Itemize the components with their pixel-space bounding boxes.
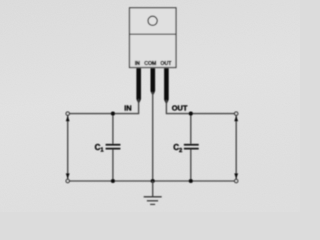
arrow down at input bottom (66, 173, 70, 179)
output terminal top (235, 112, 238, 115)
pin 3 leg (OUT) (164, 68, 169, 103)
input terminal bottom (66, 179, 69, 182)
input terminal top (66, 112, 69, 115)
wire: C2 branch upper (190, 114, 192, 144)
wire: OUT leg down to output rail (166, 100, 236, 114)
arrow up at input top (66, 116, 70, 122)
capacitor C1 plates (106, 144, 121, 150)
wire: C1 branch lower (112, 149, 114, 181)
pin 1 leg (IN) (136, 68, 141, 102)
svg-text:OUT: OUT (160, 61, 172, 67)
junction dot common bottom (151, 179, 155, 183)
mounting hole (148, 16, 157, 25)
arrow up at output top (234, 116, 238, 122)
wire: IN leg down to input rail (68, 99, 139, 114)
junction dot C2 top (189, 112, 193, 116)
svg-text:COM: COM (144, 61, 156, 67)
junction dot C1 top (111, 112, 115, 116)
junction dot C2 bottom (189, 179, 193, 183)
ground bar 2 (147, 200, 158, 202)
svg-text:IN: IN (135, 61, 140, 67)
wire: bottom common rail (68, 180, 237, 182)
ground bar 3 (150, 203, 155, 205)
regulator U1 package outline (TO-220) (130, 8, 177, 68)
ground stem (152, 181, 154, 197)
junction dot C1 bottom (111, 179, 115, 183)
wire: C1 branch upper (112, 114, 114, 144)
wire: C2 branch lower (190, 149, 192, 181)
svg-text:OUT: OUT (172, 103, 188, 112)
output terminal bottom (235, 179, 238, 182)
pin 2 leg (COM) (151, 68, 156, 94)
capacitor C2 plates (184, 144, 199, 150)
wire: left input terminal vertical (67, 114, 69, 181)
arrow down at output bottom (234, 173, 238, 179)
wire: COM leg down to ground rail (152, 92, 154, 181)
wire: right output terminal vertical (235, 114, 237, 181)
ground bar 1 (144, 196, 162, 198)
svg-text:IN: IN (124, 103, 131, 112)
